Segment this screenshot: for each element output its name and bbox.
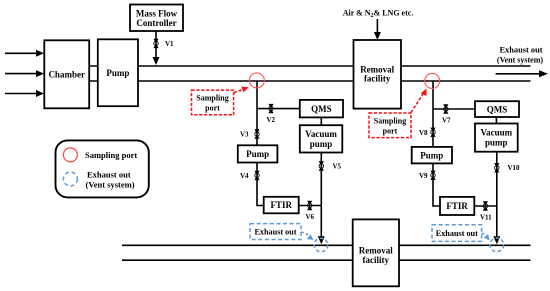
wire: right vacuum pump down line with arrow to exhaust xyxy=(493,152,500,245)
node: FTIR left xyxy=(264,197,299,214)
valve V5 xyxy=(319,161,342,170)
wire: lower exhaust pipe top line xyxy=(122,244,531,246)
wire: MFC down line with arrow to top pipe xyxy=(153,31,160,65)
svg-text:Sampling port: Sampling port xyxy=(85,150,137,160)
svg-text:Air & N2& LNG etc.: Air & N2& LNG etc. xyxy=(343,9,414,19)
node: Exhaust out (Vent system) label top right xyxy=(497,46,543,65)
node: right sampling port callout box xyxy=(369,113,411,138)
node: Pump left branch xyxy=(238,145,278,162)
wire: exhaust out arrow top right xyxy=(496,70,548,77)
node: legend box xyxy=(56,140,149,197)
node: legend exhaust out symbol xyxy=(63,172,77,186)
wire: right sampling callout arrow xyxy=(411,89,427,113)
wire: right exhaust callout arrow xyxy=(482,233,490,241)
node: Pump main xyxy=(98,39,138,106)
svg-text:Pump: Pump xyxy=(420,150,443,160)
node: Mass Flow Controller xyxy=(130,5,183,32)
wire: right sampling vertical line xyxy=(432,81,434,147)
svg-text:Exhaust out: Exhaust out xyxy=(254,228,296,237)
node: right exhaust out circle xyxy=(490,238,504,252)
node: Removal facility bottom xyxy=(353,219,399,286)
node: right exhaust out callout box xyxy=(432,225,482,242)
valve V2 xyxy=(267,104,276,124)
svg-text:V1: V1 xyxy=(165,40,174,48)
svg-text:Sampling: Sampling xyxy=(196,94,228,103)
valve V9 xyxy=(419,171,436,180)
svg-text:V9: V9 xyxy=(419,172,428,180)
wire: left Pump down to FTIR elbow xyxy=(257,163,264,206)
svg-text:pump: pump xyxy=(485,137,508,147)
wire: branch to right QMS xyxy=(433,108,475,110)
wire: branch to left QMS xyxy=(257,108,300,110)
wire: top process pipe line xyxy=(89,65,531,67)
svg-text:facility: facility xyxy=(363,255,390,265)
svg-text:FTIR: FTIR xyxy=(446,201,468,211)
svg-text:V8: V8 xyxy=(419,129,428,137)
node: left exhaust out callout box xyxy=(250,224,301,240)
wire: inlet arrow 1 into Chamber xyxy=(5,50,44,57)
wire: left exhaust callout arrow xyxy=(301,232,314,240)
svg-text:Exhaust out: Exhaust out xyxy=(87,170,131,180)
svg-text:Controller: Controller xyxy=(136,18,176,28)
wire: right FTIR to vacuum line xyxy=(474,205,497,207)
node: Pump right branch xyxy=(412,147,452,164)
wire: inlet arrow 2 into Chamber xyxy=(5,70,44,77)
svg-text:Chamber: Chamber xyxy=(48,69,85,79)
svg-text:port: port xyxy=(205,103,220,112)
svg-text:V7: V7 xyxy=(442,116,451,124)
svg-text:facility: facility xyxy=(364,74,391,84)
wire: inlet arrow 3 into Chamber xyxy=(5,90,44,97)
wire: right QMS to Vacuum pump connector xyxy=(495,117,497,124)
svg-text:V10: V10 xyxy=(508,164,521,172)
node: FTIR right xyxy=(440,197,474,215)
svg-text:Vacuum: Vacuum xyxy=(305,129,337,139)
valve V11 xyxy=(480,201,492,221)
wire: Air inlet arrow into Removal facility xyxy=(374,19,381,40)
wire: left FTIR to vacuum line xyxy=(299,205,322,207)
node: QMS left xyxy=(300,100,343,118)
svg-text:V5: V5 xyxy=(333,162,342,170)
node: Removal facility top xyxy=(354,40,402,109)
valve V1 xyxy=(153,39,174,48)
node: QMS right xyxy=(475,101,519,117)
node: left exhaust out circle xyxy=(314,238,328,252)
svg-text:V6: V6 xyxy=(306,213,315,221)
svg-text:V3: V3 xyxy=(240,131,249,139)
svg-text:FTIR: FTIR xyxy=(270,200,292,210)
valve V4 xyxy=(240,171,260,180)
svg-text:Pump: Pump xyxy=(246,149,269,159)
svg-text:V11: V11 xyxy=(480,213,492,221)
valve V3 xyxy=(240,129,260,138)
wire: left sampling vertical line xyxy=(256,81,258,145)
svg-text:V4: V4 xyxy=(240,172,249,180)
svg-text:Mass Flow: Mass Flow xyxy=(136,8,178,18)
valve V6 xyxy=(306,201,315,221)
svg-text:Exhaust out: Exhaust out xyxy=(436,229,478,238)
node: Vacuum pump left xyxy=(300,125,343,152)
svg-text:Sampling: Sampling xyxy=(374,117,406,126)
node: left sampling port circle xyxy=(249,73,264,88)
valve V10 xyxy=(494,163,520,172)
wire: left vacuum pump down line with arrow to exhaust xyxy=(318,153,325,245)
wire: lower exhaust pipe bottom line xyxy=(122,259,531,261)
node: Vacuum pump right xyxy=(475,124,518,152)
node: right sampling port circle xyxy=(425,73,440,88)
node: left sampling port callout box xyxy=(192,90,234,115)
node: legend sampling port symbol xyxy=(63,148,77,162)
valve V7 xyxy=(442,104,451,124)
wire: bottom process pipe line xyxy=(89,80,531,82)
svg-text:pump: pump xyxy=(310,139,333,149)
wire: left sampling callout arrow xyxy=(234,87,249,93)
svg-text:V2: V2 xyxy=(267,116,276,124)
valve V8 xyxy=(419,128,436,137)
node: Chamber xyxy=(44,40,89,108)
svg-text:(Vent system): (Vent system) xyxy=(497,55,543,64)
svg-text:Exhaust out: Exhaust out xyxy=(499,46,542,55)
svg-text:QMS: QMS xyxy=(487,104,508,114)
wire: right Pump down to FTIR elbow xyxy=(433,163,440,206)
svg-text:(Vent system): (Vent system) xyxy=(86,180,135,190)
svg-text:Pump: Pump xyxy=(106,68,129,78)
svg-text:port: port xyxy=(383,126,398,135)
svg-text:QMS: QMS xyxy=(311,104,332,114)
wire: left QMS to Vacuum pump connector xyxy=(320,117,322,125)
svg-text:Vacuum: Vacuum xyxy=(480,128,512,138)
